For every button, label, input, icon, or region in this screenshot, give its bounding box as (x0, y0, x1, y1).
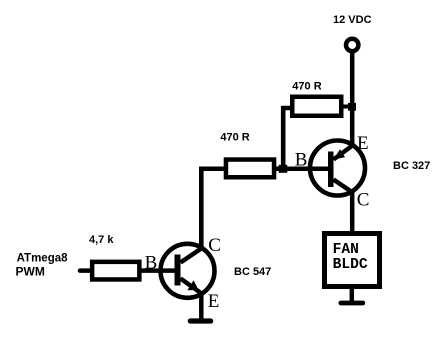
svg-text:4,7 k: 4,7 k (89, 234, 114, 246)
svg-text:470 R: 470 R (292, 81, 321, 93)
svg-text:BC 327: BC 327 (393, 160, 430, 172)
svg-text:12 VDC: 12 VDC (333, 14, 372, 26)
svg-text:ATmega8: ATmega8 (17, 253, 69, 265)
svg-text:B: B (145, 252, 158, 273)
svg-text:C: C (208, 235, 221, 256)
svg-text:BLDC: BLDC (333, 257, 368, 273)
svg-text:B: B (295, 149, 308, 170)
svg-text:E: E (357, 133, 369, 154)
svg-text:BC 547: BC 547 (234, 266, 271, 278)
svg-text:FAN: FAN (333, 242, 359, 258)
svg-text:C: C (357, 190, 370, 211)
svg-text:E: E (208, 291, 220, 312)
svg-text:470 R: 470 R (220, 132, 249, 144)
svg-text:PWM: PWM (16, 265, 45, 279)
